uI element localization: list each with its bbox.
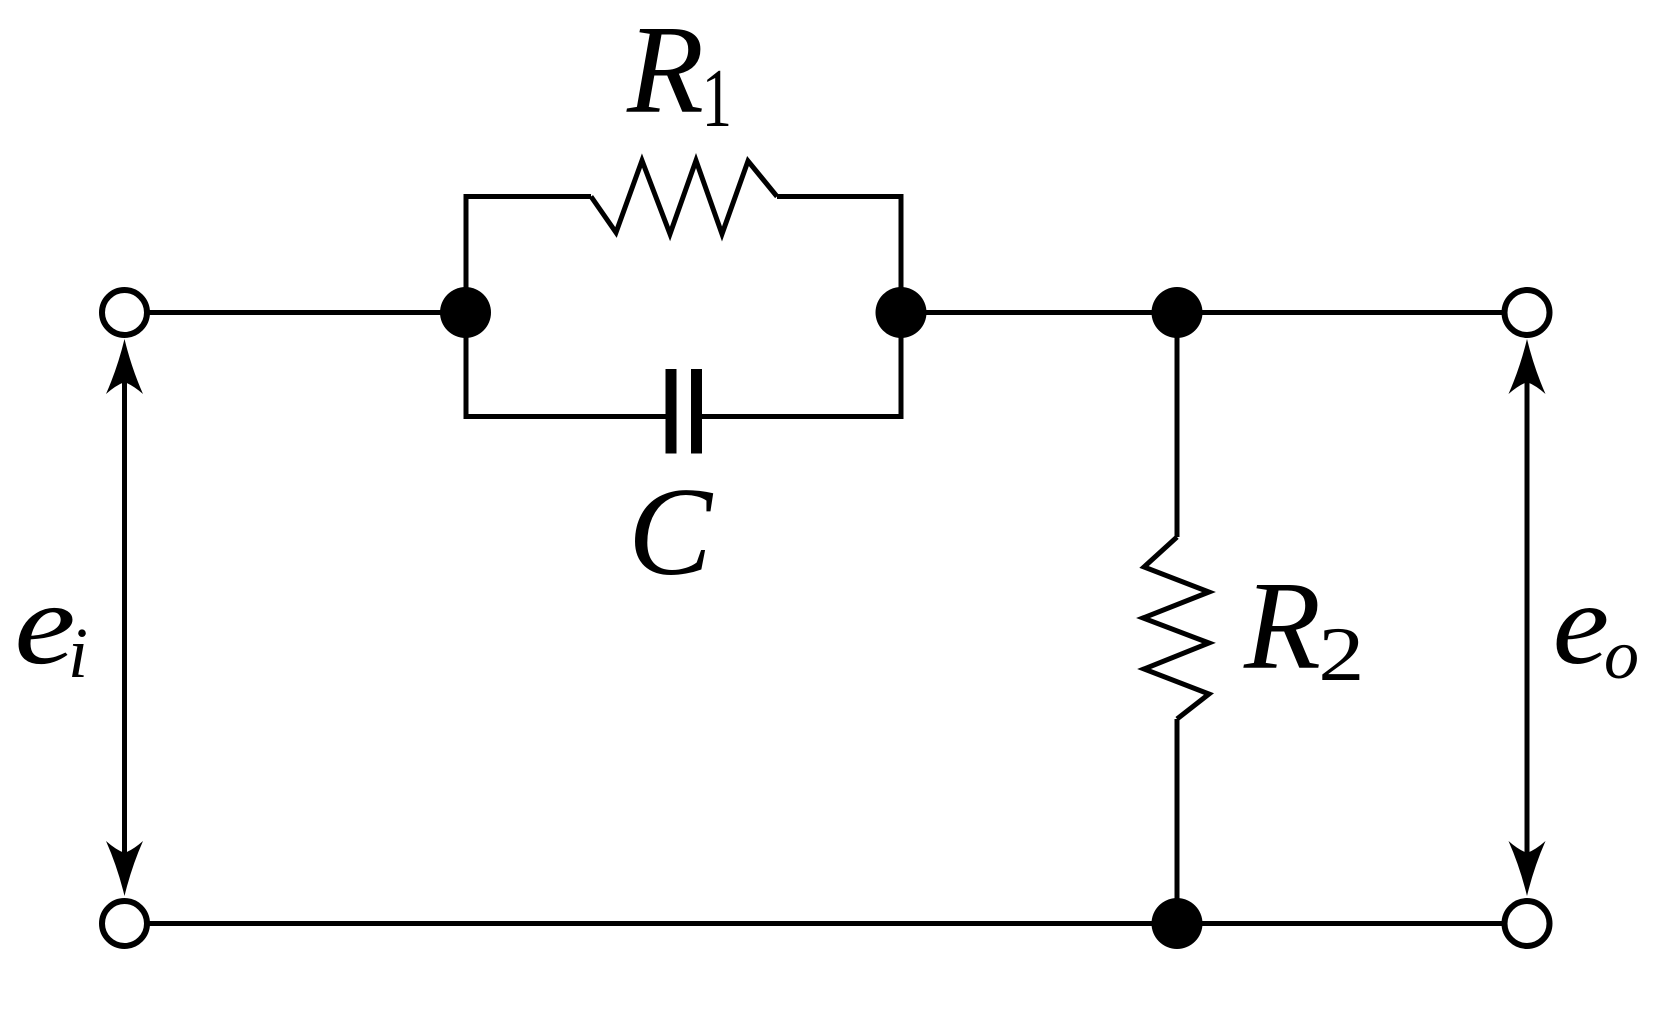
wire: bottom branch right segment from C xyxy=(700,414,904,419)
arrowhead: e_i up xyxy=(106,339,143,394)
arrowhead: e_o up xyxy=(1509,339,1546,394)
svg-text:2: 2 xyxy=(1318,612,1364,697)
terminal: e_i + (open circle, top left) xyxy=(102,290,147,335)
terminal: e_o + (open circle, top right) xyxy=(1505,290,1550,335)
wire: R2 top lead from top-rail junction xyxy=(1175,313,1180,538)
node: junction of top rail and R2 xyxy=(1152,287,1203,338)
wire: R2 bottom lead to bottom rail xyxy=(1175,719,1180,924)
svg-text:C: C xyxy=(628,463,714,602)
svg-text:1: 1 xyxy=(702,51,732,144)
wire: right vertical of R1/C parallel loop xyxy=(899,194,904,419)
svg-text:e: e xyxy=(1553,560,1610,689)
capacitor C xyxy=(671,369,697,454)
arrowhead: e_o down xyxy=(1509,841,1546,896)
node: junction of bottom rail and R2 xyxy=(1152,898,1203,949)
wire: left vertical of R1/C parallel loop xyxy=(464,313,469,420)
wire: bottom branch left segment to C xyxy=(464,414,669,419)
svg-text:o: o xyxy=(1604,617,1639,694)
wire: top rail right (R1/C right node to e_o+ terminal) xyxy=(901,310,1527,315)
wire: top branch left segment to R1 xyxy=(464,194,592,199)
wire: top branch right segment from R1 xyxy=(777,194,904,199)
resistor R1 xyxy=(591,161,777,235)
terminal: e_o - (open circle, bottom right) xyxy=(1505,901,1550,946)
arrow shaft: e_i measurement arrow xyxy=(122,380,127,856)
resistor R2 xyxy=(1143,537,1209,719)
svg-text:e: e xyxy=(14,559,75,689)
terminal: e_i - (open circle, bottom left) xyxy=(102,901,147,946)
svg-text:R: R xyxy=(1243,557,1321,696)
svg-text:i: i xyxy=(68,613,88,693)
arrowhead: e_i down xyxy=(106,841,143,896)
node: junction of top rail and R1/C left xyxy=(440,287,491,338)
node: junction of top rail and R1/C right xyxy=(876,287,927,338)
wire: top rail left (e_i+ terminal to R1/C left node) xyxy=(125,310,467,315)
arrow shaft: e_o measurement arrow xyxy=(1525,380,1530,856)
svg-text:R: R xyxy=(626,1,704,140)
wire: bottom rail (e_i- terminal to e_o- terminal) xyxy=(125,921,1528,926)
